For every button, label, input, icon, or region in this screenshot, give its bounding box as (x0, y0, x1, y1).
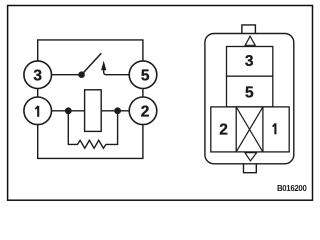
keyway X brace (236, 107, 263, 152)
wire right edge between terminal 5 and terminal 2 (142, 89, 144, 98)
connector bottom tab (244, 164, 257, 173)
wire from coil to terminal 2 (101, 110, 129, 112)
junction dot left (node between coil and resistor) (65, 107, 72, 114)
junction dot right (node between coil and resistor) (114, 107, 121, 114)
orientation arrow up (245, 36, 255, 45)
switch blade (open contact 3-5) (83, 53, 101, 73)
svg-text:2: 2 (219, 121, 228, 138)
terminal 5 (129, 61, 157, 89)
pin cavity 1 (273, 123, 276, 134)
terminal 1 (24, 97, 52, 125)
keyway divider left (235, 107, 237, 152)
relay coil (85, 90, 102, 132)
svg-text:3: 3 (33, 68, 42, 85)
switch contact dot (78, 71, 85, 78)
connector body (205, 34, 294, 164)
svg-text:5: 5 (141, 68, 150, 85)
svg-text:2: 2 (141, 104, 150, 121)
wire from terminal 3 to switch contact (52, 74, 80, 76)
wire bottom rail from terminal 1 to terminal 2 (38, 125, 143, 159)
pin cavity 5 (227, 76, 273, 107)
orientation arrow down (245, 153, 257, 161)
wire top rail from terminal 3 to terminal 5 (38, 40, 143, 61)
pin cavity 3 (227, 47, 273, 77)
terminal 3 (24, 61, 52, 89)
connector top tab (242, 25, 256, 34)
keyway divider right (262, 107, 264, 152)
wire left edge between terminal 3 and terminal 1 (37, 89, 39, 98)
wire from terminal 1 to coil (52, 110, 85, 112)
switch arrowhead (101, 61, 106, 71)
svg-text:B016200: B016200 (277, 184, 308, 193)
resistor (parallel with coil) (68, 112, 117, 148)
switch arrow stem and wire to terminal 5 (104, 68, 129, 75)
svg-text:5: 5 (245, 85, 254, 102)
bottom cavity row (211, 107, 289, 152)
svg-text:3: 3 (245, 53, 254, 70)
terminal 2 (129, 97, 157, 125)
